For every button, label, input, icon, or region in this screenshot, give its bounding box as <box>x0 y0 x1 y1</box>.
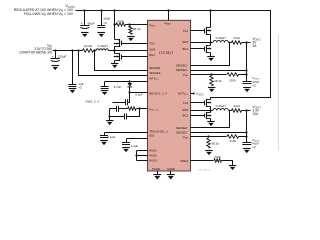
resistor R 68.1k ch2 <box>207 138 210 148</box>
node rail-VBIAS junction <box>167 9 169 11</box>
node ITH <box>138 107 140 109</box>
wire BOOST row <box>130 92 148 94</box>
wire VFB3 row <box>114 11 116 25</box>
wire TG2 <box>191 102 205 104</box>
resistor 499k <box>116 23 126 26</box>
node VFB1-VOUT1 <box>245 73 247 75</box>
wire M2 drain <box>210 43 212 46</box>
wire TG3 <box>122 43 148 45</box>
capacitor COUT2 <box>242 142 251 144</box>
svg-text:3mΩ: 3mΩ <box>233 36 240 40</box>
ground boost FET <box>111 63 119 65</box>
wire SENSE2- row <box>191 132 247 134</box>
svg-text:220µF: 220µF <box>58 54 67 58</box>
wire EXTVCC stub <box>191 93 195 95</box>
diode D1 bootstrap <box>127 83 132 87</box>
svg-text:RUN2: RUN2 <box>149 154 157 158</box>
capacitor COUT1 <box>243 81 252 83</box>
node RUN bus <box>135 154 137 156</box>
svg-text:TG1: TG1 <box>183 29 189 33</box>
node SW2 <box>209 109 211 111</box>
svg-text:0.33µH: 0.33µH <box>216 104 226 108</box>
wire M2 source gnd <box>210 53 212 57</box>
svg-text:FREQ: FREQ <box>180 159 189 163</box>
ground 220uF <box>52 65 60 67</box>
svg-text:0.1µF: 0.1µF <box>135 93 143 97</box>
wire VOUT1 vertical <box>246 43 248 82</box>
wire PGND stem <box>157 171 159 175</box>
resistor R FREQ 100k <box>214 159 222 162</box>
ground 68uF <box>81 32 89 34</box>
node M5 body <box>114 43 116 45</box>
wire BG2 <box>191 115 205 117</box>
svg-text:SGND: SGND <box>167 167 175 171</box>
svg-text:0.1µF: 0.1µF <box>108 135 116 139</box>
wire L1 to RS1 <box>229 42 232 44</box>
svg-text:+: + <box>52 55 54 59</box>
svg-text:×2: ×2 <box>78 86 82 90</box>
wire VBIAS pin drop <box>168 11 170 21</box>
svg-text:10A: 10A <box>253 112 260 116</box>
wire INTVCC row <box>105 81 148 83</box>
node 499k left <box>113 23 115 25</box>
transistor M1 ch1 top <box>206 27 208 35</box>
transistor M2 ch1 bottom <box>206 45 208 53</box>
wire M3 source to SW <box>210 107 212 111</box>
ground ch2 divider <box>205 150 213 152</box>
svg-text:SS3: SS3 <box>149 133 155 137</box>
ground boost divider <box>127 36 135 38</box>
node SENSE1- tap <box>245 69 247 71</box>
wire SS3 row <box>127 138 148 140</box>
wire ITH row <box>140 108 148 110</box>
ground COUT2 <box>243 148 251 150</box>
wire M5 source to SW3 <box>114 47 116 51</box>
wire M4 drain <box>210 111 212 113</box>
svg-text:BOOST1, 2, 3: BOOST1, 2, 3 <box>149 92 167 96</box>
wire RUN bus <box>137 150 148 152</box>
capacitor C3 220uF <box>55 51 57 59</box>
svg-text:10µF: 10µF <box>103 16 110 20</box>
svg-text:×2: ×2 <box>252 83 256 87</box>
capacitor C5 4.7uF <box>104 82 106 87</box>
svg-text:4.7µF: 4.7µF <box>114 85 122 89</box>
ground SGND <box>167 174 175 176</box>
resistor R 213k <box>227 135 239 138</box>
svg-text:SW1, 2, 3: SW1, 2, 3 <box>86 100 100 104</box>
IC U1 LTC7817 body <box>148 20 191 171</box>
svg-text:499k: 499k <box>117 19 124 23</box>
ground ch1 FET <box>207 56 215 58</box>
wire M5 drain rail <box>114 25 116 40</box>
node kelvin right <box>93 49 95 51</box>
svg-text:(START-UP ABOVE 3V): (START-UP ABOVE 3V) <box>20 51 53 55</box>
wire M1 drain up <box>210 11 212 28</box>
svg-text:3mΩ: 3mΩ <box>233 104 240 108</box>
resistor R ITH <box>128 107 137 110</box>
svg-text:0.33µH: 0.33µH <box>216 36 226 40</box>
net VIN wire <box>53 50 83 52</box>
svg-text:(1mΩ): (1mΩ) <box>84 44 93 48</box>
svg-text:0.16µH: 0.16µH <box>98 44 108 48</box>
resistor RS2 3mOhm <box>232 109 242 112</box>
wire RS2 to VOUT2 <box>242 110 251 112</box>
wire SENSE1+ row <box>191 43 230 66</box>
wire BG1 <box>191 48 205 50</box>
wire SW2 row <box>191 110 213 112</box>
node SW1 <box>209 41 211 43</box>
wire RS1 to VOUT1 <box>242 42 251 44</box>
svg-text:68.1k: 68.1k <box>212 141 220 145</box>
wire SGND stem <box>170 171 172 175</box>
wire M4 source gnd <box>210 119 212 122</box>
wire VOUT2 vertical <box>246 111 248 143</box>
capacitor C2 10uF x5 <box>101 11 103 26</box>
ground 10uF <box>98 32 106 34</box>
transistor M3 ch2 top <box>206 99 208 107</box>
inductor L3 0.16uH <box>96 49 109 51</box>
svg-text:LTC7817: LTC7817 <box>159 51 174 55</box>
wire FREQ row <box>191 160 214 162</box>
svg-text:BG1: BG1 <box>183 47 189 51</box>
wire SENSE2+ row <box>191 111 230 128</box>
svg-text:68.1k: 68.1k <box>214 79 222 83</box>
svg-text:BG2: BG2 <box>183 114 189 118</box>
svg-text:SW1: SW1 <box>182 40 189 44</box>
ground ch1 divider <box>208 87 216 89</box>
wire VFB1 row <box>191 74 227 76</box>
svg-text:RUN1: RUN1 <box>149 148 157 152</box>
wire SENSE3+ kelvin <box>79 51 148 76</box>
capacitor C1 68uF <box>84 11 86 26</box>
wire SW1 row <box>191 42 213 44</box>
inductor L1 0.33uH <box>213 40 228 42</box>
wire M6 source to gnd <box>114 61 116 64</box>
wire VFB2 row <box>191 136 227 138</box>
node ITH left <box>108 115 110 117</box>
decorative right rule <box>278 35 280 151</box>
transistor M4 ch2 bottom <box>206 112 208 119</box>
ground ch2 FET <box>207 121 215 123</box>
node VOUT2 <box>245 109 247 111</box>
svg-text:RUN3: RUN3 <box>149 159 157 163</box>
node sense2+ tap <box>229 110 231 112</box>
transistor M5 boost top <box>119 39 121 47</box>
node sense1+ tap <box>229 42 231 44</box>
ground TRACK cap <box>100 140 108 142</box>
node rail-10uF junction <box>100 9 102 11</box>
node M1 body <box>210 30 212 32</box>
svg-text:SW3: SW3 <box>149 48 156 52</box>
ground SS3 cap <box>122 147 130 149</box>
node M4 body <box>210 115 212 117</box>
node VFB3 divider <box>128 23 130 25</box>
ground ITH <box>106 120 114 122</box>
node VOUT1 <box>245 41 247 43</box>
node VFB1 <box>210 73 212 75</box>
node M2 body <box>210 48 212 50</box>
node BOOST junction <box>128 91 130 93</box>
wire TRACK/SS row <box>105 132 148 134</box>
resistor RS3 1mOhm <box>83 49 94 52</box>
wire M1 source to SW <box>210 35 212 43</box>
ground FREQ <box>229 165 237 167</box>
wire ITH left vertical <box>109 109 111 121</box>
wire SENSE1- row <box>191 70 247 72</box>
capacitor C6 0.1uF bootstrap <box>128 93 130 103</box>
resistor 68.1k boost <box>129 26 132 34</box>
capacitor C4 1uF x2 <box>72 51 74 85</box>
svg-text:BG3: BG3 <box>149 53 155 57</box>
svg-text:0.1µF: 0.1µF <box>131 144 139 148</box>
capacitor C8 ITH parallel <box>110 116 125 118</box>
svg-text:213k: 213k <box>229 139 236 143</box>
node VFB2-VOUT2 <box>245 135 247 137</box>
svg-text:×5: ×5 <box>103 21 107 25</box>
capacitor C10 SS3 0.1uF <box>126 139 128 143</box>
svg-text:+: + <box>80 21 82 25</box>
svg-text:TG3: TG3 <box>149 41 155 45</box>
wire M6 drain <box>114 51 116 54</box>
svg-text:100k: 100k <box>214 155 221 159</box>
node SENSE2- tap <box>245 131 247 133</box>
node VIN-220uF <box>54 49 56 51</box>
net VOUT3 rail wire <box>76 11 271 100</box>
svg-text:68µF: 68µF <box>88 21 95 25</box>
ground COUT1 <box>243 87 251 89</box>
svg-text:PGND: PGND <box>152 167 160 171</box>
capacitor C7 ITH series <box>110 108 117 110</box>
ground PGND <box>153 174 161 176</box>
ground 4.7uF <box>101 90 109 92</box>
node INTVCC diode <box>128 80 130 82</box>
svg-text:357k: 357k <box>229 78 236 82</box>
node VFB2 <box>207 135 209 137</box>
node SW3 <box>113 49 115 51</box>
svg-text:TG2: TG2 <box>183 101 189 105</box>
wire TG1 <box>191 30 205 32</box>
resistor R 68.1k ch1 <box>210 76 213 86</box>
node rail-68uF junction <box>83 9 85 11</box>
wire BG3 <box>122 56 148 58</box>
svg-text:FOLLOWS VIN WHEN VIN > 10V: FOLLOWS VIN WHEN VIN > 10V <box>24 12 74 17</box>
resistor R 357k <box>227 73 239 76</box>
node VIN-1uF <box>71 49 73 51</box>
svg-text:68.1k: 68.1k <box>133 27 141 31</box>
wire SENSE3- kelvin <box>95 51 148 71</box>
svg-text:SW2: SW2 <box>182 108 189 112</box>
node M3 body <box>210 102 212 104</box>
node M6 body <box>114 56 116 58</box>
wire L2 to RS2 <box>229 110 232 112</box>
capacitor C9 TRACK 0.1uF <box>104 133 106 136</box>
node kelvin left <box>77 49 79 51</box>
svg-text:7817 TA01a: 7817 TA01a <box>198 168 210 171</box>
node rail-499k junction <box>113 9 115 11</box>
svg-text:×2: ×2 <box>252 145 256 149</box>
node rail-M1 junction <box>209 9 211 11</box>
ground 1uF <box>69 88 77 90</box>
transistor M6 boost bottom <box>119 53 121 61</box>
inductor L2 0.33uH <box>213 108 228 110</box>
resistor RS1 3mOhm <box>232 41 242 44</box>
